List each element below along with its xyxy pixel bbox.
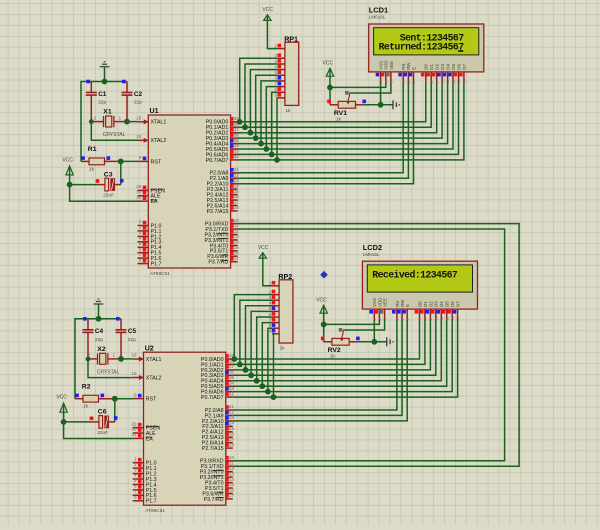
svg-text:U2: U2 [145, 344, 154, 352]
svg-text:RV1: RV1 [334, 110, 347, 117]
svg-text:XTAL1: XTAL1 [146, 357, 162, 363]
svg-text:C2: C2 [134, 91, 143, 98]
svg-text:D3: D3 [440, 64, 445, 70]
svg-text:VCC: VCC [323, 60, 334, 66]
svg-text:E: E [405, 304, 410, 307]
svg-text:10: 10 [229, 455, 235, 460]
svg-text:D7: D7 [462, 64, 467, 70]
svg-text:C5: C5 [128, 328, 137, 335]
svg-text:VEE: VEE [389, 61, 394, 70]
svg-text:C1: C1 [98, 91, 107, 98]
svg-text:R2: R2 [82, 384, 91, 391]
svg-text:AT89C51: AT89C51 [145, 508, 165, 514]
svg-text:RP1: RP1 [284, 36, 298, 44]
svg-text:27: 27 [229, 437, 235, 442]
svg-text:1k: 1k [89, 166, 95, 172]
svg-text:Returned:1234567: Returned:1234567 [379, 42, 465, 53]
svg-text:VCC: VCC [62, 157, 73, 163]
svg-text:Received:1234567: Received:1234567 [372, 270, 458, 281]
svg-text:D0: D0 [417, 301, 422, 307]
svg-text:XTAL2: XTAL2 [151, 138, 167, 144]
svg-text:31: 31 [136, 195, 142, 200]
svg-text:D0: D0 [424, 64, 429, 70]
svg-text:D2: D2 [435, 64, 440, 70]
svg-text:D2: D2 [428, 301, 433, 307]
svg-text:26: 26 [229, 431, 235, 436]
svg-text:R1: R1 [88, 146, 97, 153]
svg-text:19: 19 [131, 353, 137, 358]
svg-text:P1.7: P1.7 [151, 262, 162, 268]
svg-text:1k: 1k [83, 404, 89, 410]
svg-text:16: 16 [229, 488, 235, 493]
svg-text:RP2: RP2 [278, 273, 292, 281]
svg-text:15: 15 [229, 482, 235, 487]
svg-text:D1: D1 [429, 64, 434, 70]
svg-text:LCD1: LCD1 [369, 6, 388, 15]
svg-text:VCC: VCC [56, 395, 67, 401]
svg-text:29: 29 [131, 421, 137, 426]
svg-text:1k: 1k [280, 345, 286, 351]
svg-text:22p: 22p [98, 100, 106, 106]
svg-text:21: 21 [234, 167, 240, 172]
svg-text:31: 31 [131, 432, 137, 437]
svg-text:22uF: 22uF [103, 193, 114, 199]
svg-text:22p: 22p [95, 337, 103, 343]
svg-text:D1: D1 [423, 301, 428, 307]
svg-text:XTAL1: XTAL1 [151, 120, 167, 126]
svg-text:1k: 1k [330, 354, 336, 360]
svg-text:1k: 1k [336, 117, 342, 123]
svg-text:E: E [411, 67, 416, 70]
svg-text:D5: D5 [451, 64, 456, 70]
svg-text:14: 14 [234, 240, 240, 245]
svg-text:XTAL2: XTAL2 [146, 375, 162, 381]
svg-text:10: 10 [234, 218, 240, 223]
svg-text:13: 13 [234, 234, 240, 239]
svg-text:VCC: VCC [316, 297, 327, 303]
svg-text:17: 17 [234, 256, 240, 261]
svg-text:15: 15 [234, 245, 240, 250]
svg-text:CRYSTAL: CRYSTAL [103, 132, 126, 138]
svg-text:28: 28 [234, 205, 240, 210]
svg-text:D5: D5 [445, 301, 450, 307]
svg-text:D6: D6 [456, 64, 461, 70]
svg-text:25: 25 [234, 189, 240, 194]
svg-text:C6: C6 [98, 409, 107, 416]
svg-text:P1.7: P1.7 [146, 499, 157, 505]
svg-text:D7: D7 [456, 301, 461, 307]
svg-text:27: 27 [234, 200, 240, 205]
svg-text:X2: X2 [97, 346, 106, 353]
svg-text:26: 26 [234, 194, 240, 199]
svg-text:16: 16 [234, 250, 240, 255]
svg-text:30: 30 [131, 427, 137, 432]
svg-text:VEE: VEE [383, 298, 388, 307]
svg-text:18: 18 [131, 371, 137, 376]
svg-text:LCD2: LCD2 [363, 243, 382, 252]
svg-text:14: 14 [229, 477, 235, 482]
svg-text:C3: C3 [104, 171, 113, 178]
svg-text:28: 28 [229, 442, 235, 447]
svg-text:17: 17 [229, 493, 235, 498]
svg-text:CRYSTAL: CRYSTAL [97, 370, 120, 376]
svg-text:RV2: RV2 [328, 347, 341, 354]
svg-text:LM016L: LM016L [369, 15, 386, 20]
svg-text:VCC: VCC [262, 7, 273, 13]
svg-text:X1: X1 [103, 109, 112, 116]
svg-text:D3: D3 [434, 301, 439, 307]
svg-text:19: 19 [136, 116, 142, 121]
svg-text:RST: RST [151, 159, 162, 165]
svg-text:1k: 1k [285, 108, 291, 114]
svg-text:RST: RST [146, 397, 157, 403]
svg-text:29: 29 [136, 184, 142, 189]
svg-text:P0.7/AD7: P0.7/AD7 [201, 395, 224, 401]
svg-text:VCC: VCC [258, 245, 269, 251]
svg-text:25: 25 [229, 426, 235, 431]
svg-text:D6: D6 [450, 301, 455, 307]
svg-text:13: 13 [229, 471, 235, 476]
svg-text:P2.7/A15: P2.7/A15 [207, 209, 229, 215]
svg-text:U1: U1 [150, 107, 159, 115]
svg-text:P2.7/A15: P2.7/A15 [202, 446, 224, 452]
svg-text:22p: 22p [128, 337, 136, 343]
svg-text:30: 30 [136, 190, 142, 195]
svg-text:21: 21 [229, 404, 235, 409]
svg-text:D4: D4 [439, 301, 444, 307]
svg-text:C4: C4 [95, 328, 104, 335]
svg-text:LM016L: LM016L [363, 252, 380, 257]
svg-text:AT89C51: AT89C51 [150, 271, 170, 277]
svg-text:22p: 22p [134, 100, 142, 106]
svg-text:D4: D4 [446, 64, 451, 70]
svg-text:18: 18 [136, 134, 142, 139]
svg-text:P0.7/AD7: P0.7/AD7 [206, 158, 229, 164]
svg-text:22uF: 22uF [97, 430, 108, 436]
